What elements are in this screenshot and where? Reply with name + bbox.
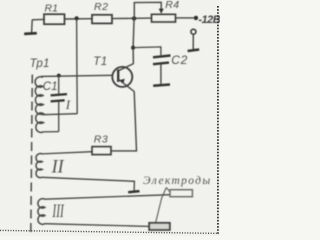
node J2 (R2/R4 junction) [132,16,136,20]
ground bar top-left [24,32,37,35]
wire R4 to supply terminal [176,17,194,19]
terminal common (ring) [191,29,196,34]
capacitor C1 top plate [51,94,67,95]
node J3 (collector / C2 junction) [131,46,135,50]
wire J3 to C2 [133,47,161,55]
resistor R2 [92,15,112,24]
ground bar winding II [128,191,139,192]
ground lead top-left [31,20,34,33]
T1 base bar [117,69,119,82]
ground bar C2 [153,85,170,86]
winding I [35,77,44,133]
ground bar terminal common [188,50,200,52]
wire winding II bottom [42,177,134,191]
wire winding I bottom [44,131,59,133]
potentiometer R4 [152,14,176,22]
wire winding I top hook [41,76,43,77]
wire R1 to R2 [65,18,93,20]
wire winding III bottom to electrode 2 [45,224,150,227]
wire R2 to R4 [112,17,152,20]
wiper arrow of R4 [159,9,164,14]
terminal -12V (filled) [194,16,198,20]
capacitor C1 top lead [58,76,60,94]
wire R3 to emitter [111,92,137,151]
T1 collector lead [119,64,134,71]
wire terminal common lead [192,34,194,49]
T1 emitter arrow (PNP) [120,79,125,83]
resistor R1 [44,14,65,24]
node J1 (R1/R2 junction) [75,16,79,20]
right margin dotted rule [217,6,219,234]
capacitor C2 bottom plate [153,63,169,65]
wire wiper return (J2 up and over to R4 wiper) [134,2,161,18]
wire top rail left (ground to R1) [32,18,44,20]
bottom margin dotted rule [0,230,219,233]
electrode 2 [149,223,170,230]
electrode 1 [170,190,192,197]
winding II [36,154,42,178]
leader to electrode 1 [166,188,170,192]
T1 emitter lead [119,80,135,92]
transformer core (dashed) [31,75,33,234]
capacitor C1 bottom plate [51,100,65,101]
leader to electrode 2 [156,188,167,223]
transistor T1 [112,67,132,87]
wire tap horizontal [42,114,77,115]
wire C2 to ground [160,64,162,84]
winding III [38,199,45,225]
capacitor C2 top plate [153,56,171,58]
wire J2 down to J3 and collector [133,18,134,64]
wire winding III top to electrode 1 [45,195,170,200]
node base/tank junction [57,74,61,78]
wire J1 down to winding tap [76,18,79,113]
capacitor C1 bottom lead [58,101,60,132]
resistor R3 [92,147,111,155]
wire winding II top to R3 [42,152,92,154]
wire base (tank top to base) [41,75,112,76]
